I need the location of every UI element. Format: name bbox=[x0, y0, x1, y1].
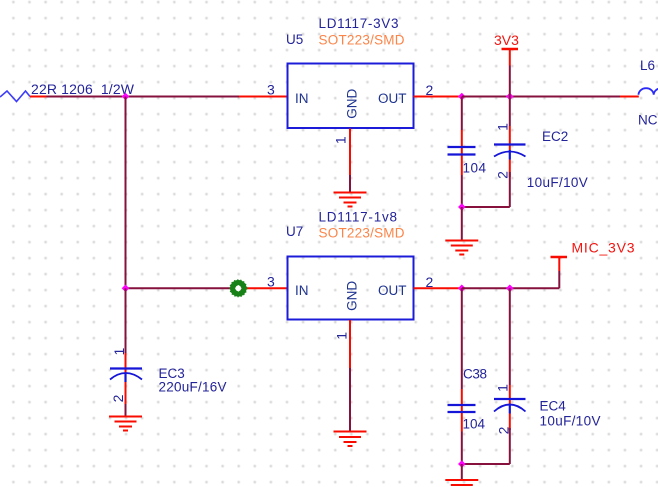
svg-text:1: 1 bbox=[111, 347, 127, 355]
wire: riser to MIC_3V3 bbox=[558, 271, 560, 288]
svg-text:IN: IN bbox=[295, 91, 309, 106]
wire: resistor to U5 IN (horizontal, top rail) bbox=[47, 96, 240, 98]
junction 104/EC2 bottom bbox=[458, 203, 466, 211]
wire: C38 to bottom junction bbox=[461, 432, 463, 465]
capacitor EC4 pin 1 stub bbox=[509, 385, 511, 405]
wire: bottom rail from left branch to U7 bbox=[126, 287, 233, 289]
capacitor EC4 curved plate bbox=[494, 405, 526, 412]
capacitor 104 pin (crosses plates) bbox=[461, 130, 463, 175]
svg-text:MIC_3V3: MIC_3V3 bbox=[572, 240, 635, 256]
wire: bottom connect C38/EC4 bbox=[462, 463, 510, 465]
capacitor EC4 straight plate bbox=[494, 398, 526, 400]
capacitor EC2 straight plate bbox=[494, 143, 526, 145]
capacitor 104 plates bbox=[448, 147, 476, 155]
power symbol 3V3 (bar) bbox=[502, 48, 519, 50]
ground symbol under U5 bbox=[334, 193, 367, 207]
pin 2 stub (U5 OUT) bbox=[414, 96, 463, 98]
junction C38/EC4 bottom bbox=[458, 460, 466, 468]
wire: left vertical branch down to bottom rail bbox=[125, 97, 127, 289]
capacitor EC2 curved plate bbox=[494, 152, 526, 157]
junction at bottom rail / left branch bbox=[122, 285, 130, 293]
wire: EC3 branch vertical bbox=[125, 288, 127, 353]
regulator U5 body bbox=[288, 64, 414, 129]
net-tie ring (green) on U7 IN bbox=[230, 280, 247, 297]
wire: EC4 branch vertical bbox=[509, 288, 511, 385]
svg-text:1: 1 bbox=[334, 332, 350, 340]
junction at 3V3 / EC2 branch bbox=[506, 93, 514, 101]
pin 2 stub (U7 OUT) bbox=[414, 287, 463, 289]
ground symbol under C38/EC4 (clipped at bottom) bbox=[445, 480, 478, 485]
svg-text:104: 104 bbox=[463, 417, 486, 432]
capacitor EC3 curved plate bbox=[110, 373, 142, 380]
svg-text:SOT223/SMD: SOT223/SMD bbox=[319, 226, 405, 241]
pin 3 stub (U5 IN) bbox=[239, 96, 287, 98]
svg-text:EC2: EC2 bbox=[542, 129, 568, 144]
svg-text:10uF/10V: 10uF/10V bbox=[540, 414, 601, 429]
inductor L6 coil (clipped at right edge) bbox=[639, 88, 658, 95]
svg-text:2: 2 bbox=[495, 171, 511, 179]
pin 1 stub (U7 GND) bbox=[349, 320, 351, 368]
wire: 104 to bottom junction bbox=[461, 175, 463, 207]
svg-text:C38: C38 bbox=[463, 367, 487, 382]
ground symbol under EC3 bbox=[109, 417, 142, 431]
power symbol MIC_3V3 bar bbox=[551, 256, 568, 258]
svg-text:OUT: OUT bbox=[378, 91, 407, 106]
svg-text:3: 3 bbox=[267, 82, 275, 98]
svg-text:22R 1206_1/2W: 22R 1206_1/2W bbox=[31, 81, 135, 97]
wire: bottom connect 104/EC2 bbox=[462, 206, 510, 208]
svg-text:220uF/16V: 220uF/16V bbox=[159, 380, 227, 395]
inductor L6 pin stub bbox=[620, 96, 639, 98]
svg-text:OUT: OUT bbox=[378, 283, 407, 298]
wire: EC3 to ground bbox=[125, 404, 127, 417]
svg-text:2: 2 bbox=[426, 274, 434, 290]
svg-text:2: 2 bbox=[426, 82, 434, 98]
svg-text:GND: GND bbox=[345, 281, 360, 311]
svg-text:3: 3 bbox=[267, 274, 275, 290]
svg-text:10uF/10V: 10uF/10V bbox=[527, 175, 588, 190]
capacitor EC3 pin 2 stub bbox=[125, 382, 127, 404]
junction at U5 OUT / 104 branch bbox=[458, 93, 466, 101]
resistor 22R (zigzag, clipped at left edge) bbox=[0, 91, 30, 102]
capacitor EC2 pin 2 stub bbox=[509, 160, 511, 178]
svg-text:GND: GND bbox=[345, 88, 360, 118]
svg-text:1: 1 bbox=[495, 123, 511, 131]
wire: EC2 to bottom connect bbox=[509, 172, 511, 207]
capacitor EC2 pin 1 stub bbox=[509, 126, 511, 150]
wire: U7 GND pin to ground bbox=[349, 368, 351, 432]
svg-text:IN: IN bbox=[295, 283, 309, 298]
wire: 3V3 symbol to top rail bbox=[509, 66, 511, 97]
wire: EC4 down to bottom connect bbox=[509, 428, 511, 464]
wire: top rail from junction to L6 bbox=[462, 96, 621, 98]
svg-text:1: 1 bbox=[333, 136, 349, 144]
svg-text:NC: NC bbox=[638, 113, 658, 128]
ground symbol under U7 bbox=[334, 432, 367, 447]
capacitor EC3 pin 1 stub bbox=[125, 353, 127, 373]
resistor right pin stub bbox=[30, 96, 47, 98]
svg-text:LD1117-3V3: LD1117-3V3 bbox=[319, 16, 399, 31]
svg-text:U7: U7 bbox=[286, 224, 303, 239]
capacitor C38 plates bbox=[448, 405, 476, 412]
wire: C38 branch vertical bbox=[461, 288, 463, 389]
wire: junction to top ground bbox=[461, 207, 463, 241]
capacitor EC2 plate stem (blue) bbox=[509, 150, 511, 160]
wire: EC2 branch vertical bbox=[509, 97, 511, 127]
svg-text:104: 104 bbox=[463, 161, 487, 176]
capacitor EC3 plate stem (blue) bbox=[124, 373, 126, 382]
capacitor C38 pin (crosses plates) bbox=[461, 389, 463, 432]
capacitor EC4 pin 2 stub bbox=[509, 414, 511, 431]
wire: bottom rail to MIC_3V3 riser bbox=[462, 287, 559, 289]
power symbol 3V3 stem bbox=[509, 49, 511, 66]
svg-text:3V3: 3V3 bbox=[494, 32, 519, 48]
svg-text:SOT223/SMD: SOT223/SMD bbox=[319, 33, 405, 48]
svg-text:U5: U5 bbox=[286, 32, 303, 47]
wire: U5 GND pin to ground bbox=[349, 175, 351, 193]
junction at EC4 branch bbox=[506, 285, 514, 293]
junction at top rail / left branch bbox=[122, 93, 130, 101]
svg-text:2: 2 bbox=[110, 394, 126, 402]
svg-text:L6: L6 bbox=[640, 58, 655, 73]
pin 3 stub (U7 IN) bbox=[239, 287, 287, 289]
capacitor EC4 plate stem (blue) bbox=[509, 405, 511, 414]
power symbol MIC_3V3 stem bbox=[558, 257, 560, 271]
junction at U7 OUT / C38 branch bbox=[458, 285, 466, 293]
regulator U7 body bbox=[288, 257, 414, 320]
ground symbol under 104/EC2 bbox=[445, 241, 478, 255]
wire: junction down to capacitor 104 (top) bbox=[461, 97, 463, 131]
svg-text:EC4: EC4 bbox=[540, 399, 567, 414]
pin 1 stub (U5 GND) bbox=[349, 129, 351, 176]
wire: junction to bottom ground bbox=[461, 464, 463, 480]
svg-text:LD1117-1v8: LD1117-1v8 bbox=[319, 210, 398, 225]
svg-text:1: 1 bbox=[495, 384, 511, 392]
capacitor EC3 straight plate bbox=[110, 367, 142, 369]
